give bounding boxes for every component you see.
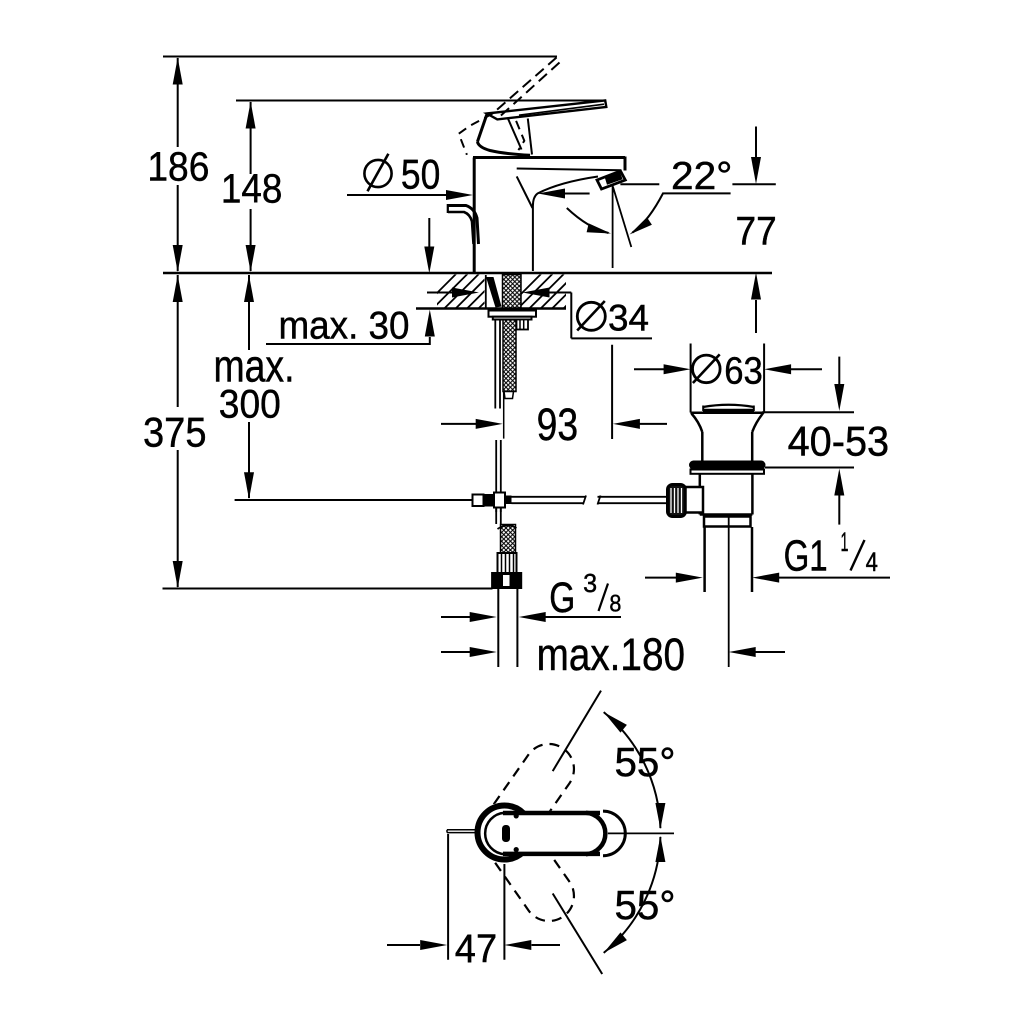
text 55 upper (615, 739, 676, 785)
body left hook (448, 204, 479, 244)
dim G38 left (441, 612, 497, 622)
lever dashed raised line A (492, 58, 556, 114)
svg-text:55°: 55° (615, 739, 676, 785)
svg-text:G: G (549, 574, 575, 621)
faucet body left edge (473, 158, 476, 273)
text bg 186 (142, 147, 214, 185)
angle arc left (567, 208, 611, 234)
drain washer (691, 470, 765, 474)
supply tube end (498, 588, 517, 668)
screw dot top (514, 813, 519, 818)
faucet body top edge (473, 156, 625, 159)
dim dia50 leader (347, 190, 473, 200)
dim shank right arrow (523, 288, 572, 298)
dim 186 top reference line (163, 56, 557, 58)
text 22deg (671, 155, 732, 198)
dim dia63 right (764, 364, 822, 374)
text 93 (537, 399, 579, 450)
ext line 55 upper (553, 691, 601, 772)
dim 148 line (246, 102, 256, 273)
screw dot bottom (514, 847, 519, 852)
handle capsule fill (485, 813, 605, 855)
text 47 (455, 927, 497, 971)
svg-text:max. 30: max. 30 (279, 305, 410, 348)
svg-text:47: 47 (455, 927, 497, 971)
drain collar left bevel (692, 414, 703, 433)
svg-text:3: 3 (583, 568, 597, 598)
ext line 55 lower (553, 894, 603, 975)
lever dome curve (477, 142, 530, 155)
body silhouette mask (474, 802, 624, 863)
dim G114 right (752, 573, 890, 583)
text bg 375 (138, 407, 211, 450)
handle swung dashed lower (470, 798, 584, 931)
spout inner curve (533, 177, 598, 272)
text max180 (537, 629, 685, 680)
hose nut G38 (493, 574, 521, 588)
dim47 ext right (503, 864, 505, 960)
lever neck left line (508, 118, 522, 150)
spout channel left diagonal (517, 176, 533, 208)
drain collar top (690, 412, 764, 415)
bottom view centerline (608, 832, 674, 834)
capsule bottom edge (503, 852, 600, 857)
knob connector (686, 487, 704, 513)
drain neck (702, 432, 752, 461)
aerator outlet (597, 171, 625, 189)
lever dashed base left (459, 114, 493, 155)
svg-text:300: 300 (219, 383, 281, 427)
drain lower band (704, 517, 751, 527)
deck hatching left block (420, 274, 536, 310)
text 186 (147, 144, 209, 190)
svg-text:55°: 55° (615, 882, 676, 928)
cartridge slot dot (502, 825, 510, 842)
svg-text:50: 50 (401, 151, 440, 198)
pull rod upper (496, 440, 501, 512)
dim47 ext left (447, 834, 449, 960)
text max300 a (214, 341, 295, 392)
dim 22deg label line right (732, 183, 775, 185)
angle arc right leader (630, 193, 731, 234)
dim 47 left (387, 940, 447, 950)
body outer right arc (603, 811, 625, 856)
text bg 148 (217, 174, 288, 209)
dim G114 left (645, 573, 703, 583)
cross fitting (473, 493, 512, 508)
dim max300 line (244, 275, 254, 499)
threaded shank (503, 275, 522, 309)
rod below fitting (496, 508, 501, 525)
faucet body right edge (624, 157, 627, 171)
dim max30 lower (425, 310, 435, 346)
dim dia63 left (634, 364, 691, 374)
svg-text:148: 148 (221, 166, 283, 212)
dim max180 right (729, 647, 785, 657)
dia34 label elbow (570, 293, 572, 339)
dia63 ext line left (690, 344, 692, 413)
angle arc 55 upper (604, 712, 666, 829)
capsule left cap arc (485, 813, 504, 855)
lever dashed raised line B (497, 63, 559, 119)
svg-text:375: 375 (143, 409, 207, 456)
lever tip stub (447, 830, 476, 833)
text dia63 (693, 351, 763, 393)
lever dashed base right (516, 121, 524, 150)
dim max30 upper shaft (424, 218, 434, 274)
text dia50 (364, 151, 440, 198)
drain knob (668, 485, 686, 517)
drain collar right bevel (752, 414, 763, 433)
dim 93 right (613, 419, 667, 429)
drain gasket (689, 461, 766, 470)
text G38 (549, 568, 621, 621)
hose left tube (495, 320, 500, 409)
shank flange nut (493, 317, 532, 320)
svg-text:186: 186 (147, 144, 209, 190)
dim 77 top shaft (751, 127, 761, 185)
stream axis vertical (612, 186, 614, 268)
svg-text:22°: 22° (671, 155, 732, 198)
angle arc 55 lower (604, 836, 666, 953)
braided hose lower (498, 525, 517, 554)
text bg max300 (208, 350, 303, 422)
lever back edge (477, 115, 486, 142)
drain centerline (728, 517, 730, 667)
text max300 b (219, 383, 281, 427)
max300 bottom ref line (235, 499, 473, 501)
horizontal rod segment A (512, 496, 587, 505)
base thick circle (478, 806, 532, 860)
braided hose upper (503, 320, 516, 392)
text 40-53 (788, 418, 890, 465)
lever neck right line (528, 119, 532, 155)
svg-text:34: 34 (608, 297, 649, 339)
ribbed hose fitting (498, 553, 517, 573)
horizontal rod segment B (598, 496, 669, 505)
dim 93 left (441, 419, 503, 429)
dim 40-53 top ref (762, 411, 854, 413)
dim 148 reference line (236, 100, 604, 102)
shank wedge (486, 277, 502, 308)
dia34 underline (571, 337, 652, 339)
braid tail (504, 392, 514, 399)
text 148 (221, 166, 283, 212)
dim 47 right (504, 940, 560, 950)
dim max30 underline (266, 343, 431, 345)
dim375 bottom ref line (163, 588, 493, 590)
hose right stub (517, 320, 529, 330)
shank hole left tube (485, 275, 487, 308)
capsule inner right arc (586, 813, 605, 855)
dim 77 bottom shaft (751, 273, 761, 334)
dim 22deg label line left (620, 183, 659, 185)
handle swung dashed upper (470, 734, 584, 867)
spout arrow (538, 189, 590, 199)
text G114 (784, 527, 878, 581)
dim 186 line (173, 58, 183, 273)
drain body (700, 474, 753, 515)
svg-text:8: 8 (609, 591, 621, 618)
dia63 ext line right (763, 344, 765, 413)
capsule top edge (503, 811, 600, 816)
text max30 (279, 305, 410, 348)
faucet top face front edge (517, 169, 622, 171)
dim 40-53 bottom ref (765, 467, 854, 469)
dim G38 right (519, 612, 621, 622)
drain tailpipe (705, 527, 752, 592)
text 375 (143, 409, 207, 456)
svg-text:4: 4 (866, 547, 878, 577)
countertop line (163, 272, 772, 275)
deck hatching right block (505, 274, 621, 310)
text 55 lower (615, 882, 676, 928)
svg-text:93: 93 (537, 399, 579, 450)
svg-text:max.180: max.180 (537, 629, 685, 680)
dim 375 line (173, 275, 183, 588)
svg-text:G1: G1 (784, 532, 828, 581)
lever blade solid (487, 100, 607, 119)
deck bottom line (416, 307, 566, 310)
text dia34 (577, 297, 649, 339)
svg-text:1: 1 (841, 527, 849, 557)
dia34 extension line (611, 345, 613, 439)
stream axis tilted 22deg (613, 187, 631, 247)
svg-text:63: 63 (724, 351, 763, 393)
svg-text:77: 77 (736, 210, 777, 254)
dim max180 left (441, 647, 497, 657)
drain plug cap (703, 405, 754, 411)
dim 40-53 arrows (834, 357, 844, 525)
shank flange washer (489, 311, 537, 317)
svg-text:40-53: 40-53 (788, 418, 890, 465)
hose break line (503, 392, 505, 439)
dim shank left arrow (427, 288, 479, 298)
text 77 (736, 210, 777, 254)
